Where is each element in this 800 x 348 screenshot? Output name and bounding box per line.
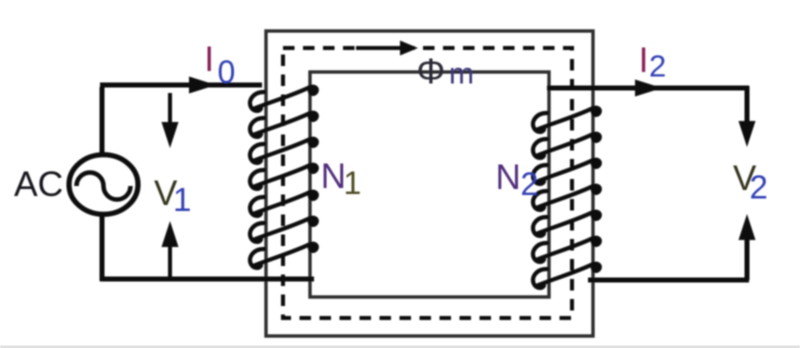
svg-text:N: N (321, 157, 346, 196)
wire: bottom-left horizontal (100, 277, 314, 282)
svg-text:m: m (449, 58, 474, 91)
svg-text:I: I (639, 40, 649, 80)
wire: AC bottom vertical (100, 213, 105, 281)
secondary winding N2 (533, 106, 602, 288)
wire: right vertical with V2 down arrow (745, 86, 750, 128)
transformer core inner rectangle (310, 72, 549, 297)
svg-text:1: 1 (344, 165, 362, 201)
wire: top-right horizontal (547, 86, 749, 91)
svg-text:AC: AC (14, 164, 63, 204)
svg-text:I: I (204, 39, 214, 79)
V2 up arrow (745, 233, 750, 280)
svg-text:N: N (496, 158, 521, 197)
V1 down arrow (162, 93, 179, 148)
svg-text:0: 0 (218, 54, 236, 90)
arrow I2 on top-right wire (635, 80, 662, 97)
primary winding N1 (250, 85, 319, 268)
V1 up arrow (162, 221, 179, 277)
svg-text:1: 1 (173, 181, 191, 218)
bottom edge artifact line (0, 346, 800, 348)
svg-text:2: 2 (649, 49, 666, 84)
transformer core outer rectangle (266, 31, 593, 336)
wire: AC top vertical (100, 87, 105, 156)
wire: top-left horizontal (100, 83, 262, 88)
svg-text:2: 2 (750, 169, 768, 206)
wire: bottom-right horizontal (588, 278, 749, 283)
svg-text:2: 2 (521, 166, 539, 202)
AC source (69, 155, 138, 215)
flux path dashed rectangle (283, 48, 572, 318)
flux arrow on dashed path (356, 41, 418, 56)
arrow I0 on top-left wire (189, 77, 216, 94)
svg-text:Φ: Φ (417, 51, 446, 92)
